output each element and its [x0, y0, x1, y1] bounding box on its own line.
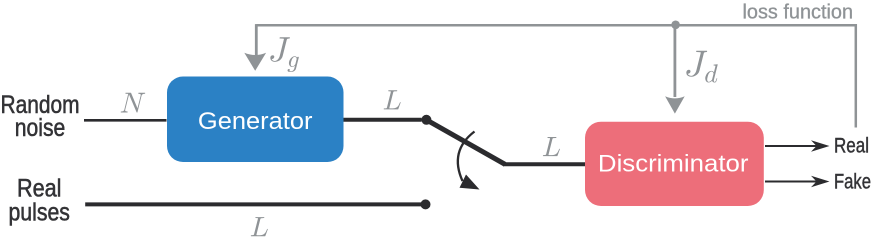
svg-text:noise: noise: [15, 114, 66, 142]
svg-text:Generator: Generator: [198, 108, 313, 135]
svg-text:loss function: loss function: [743, 2, 854, 24]
svg-text:Real: Real: [834, 134, 869, 158]
svg-text:Fake: Fake: [834, 170, 871, 194]
svg-text:pulses: pulses: [8, 199, 70, 227]
svg-text:Discriminator: Discriminator: [598, 151, 749, 178]
